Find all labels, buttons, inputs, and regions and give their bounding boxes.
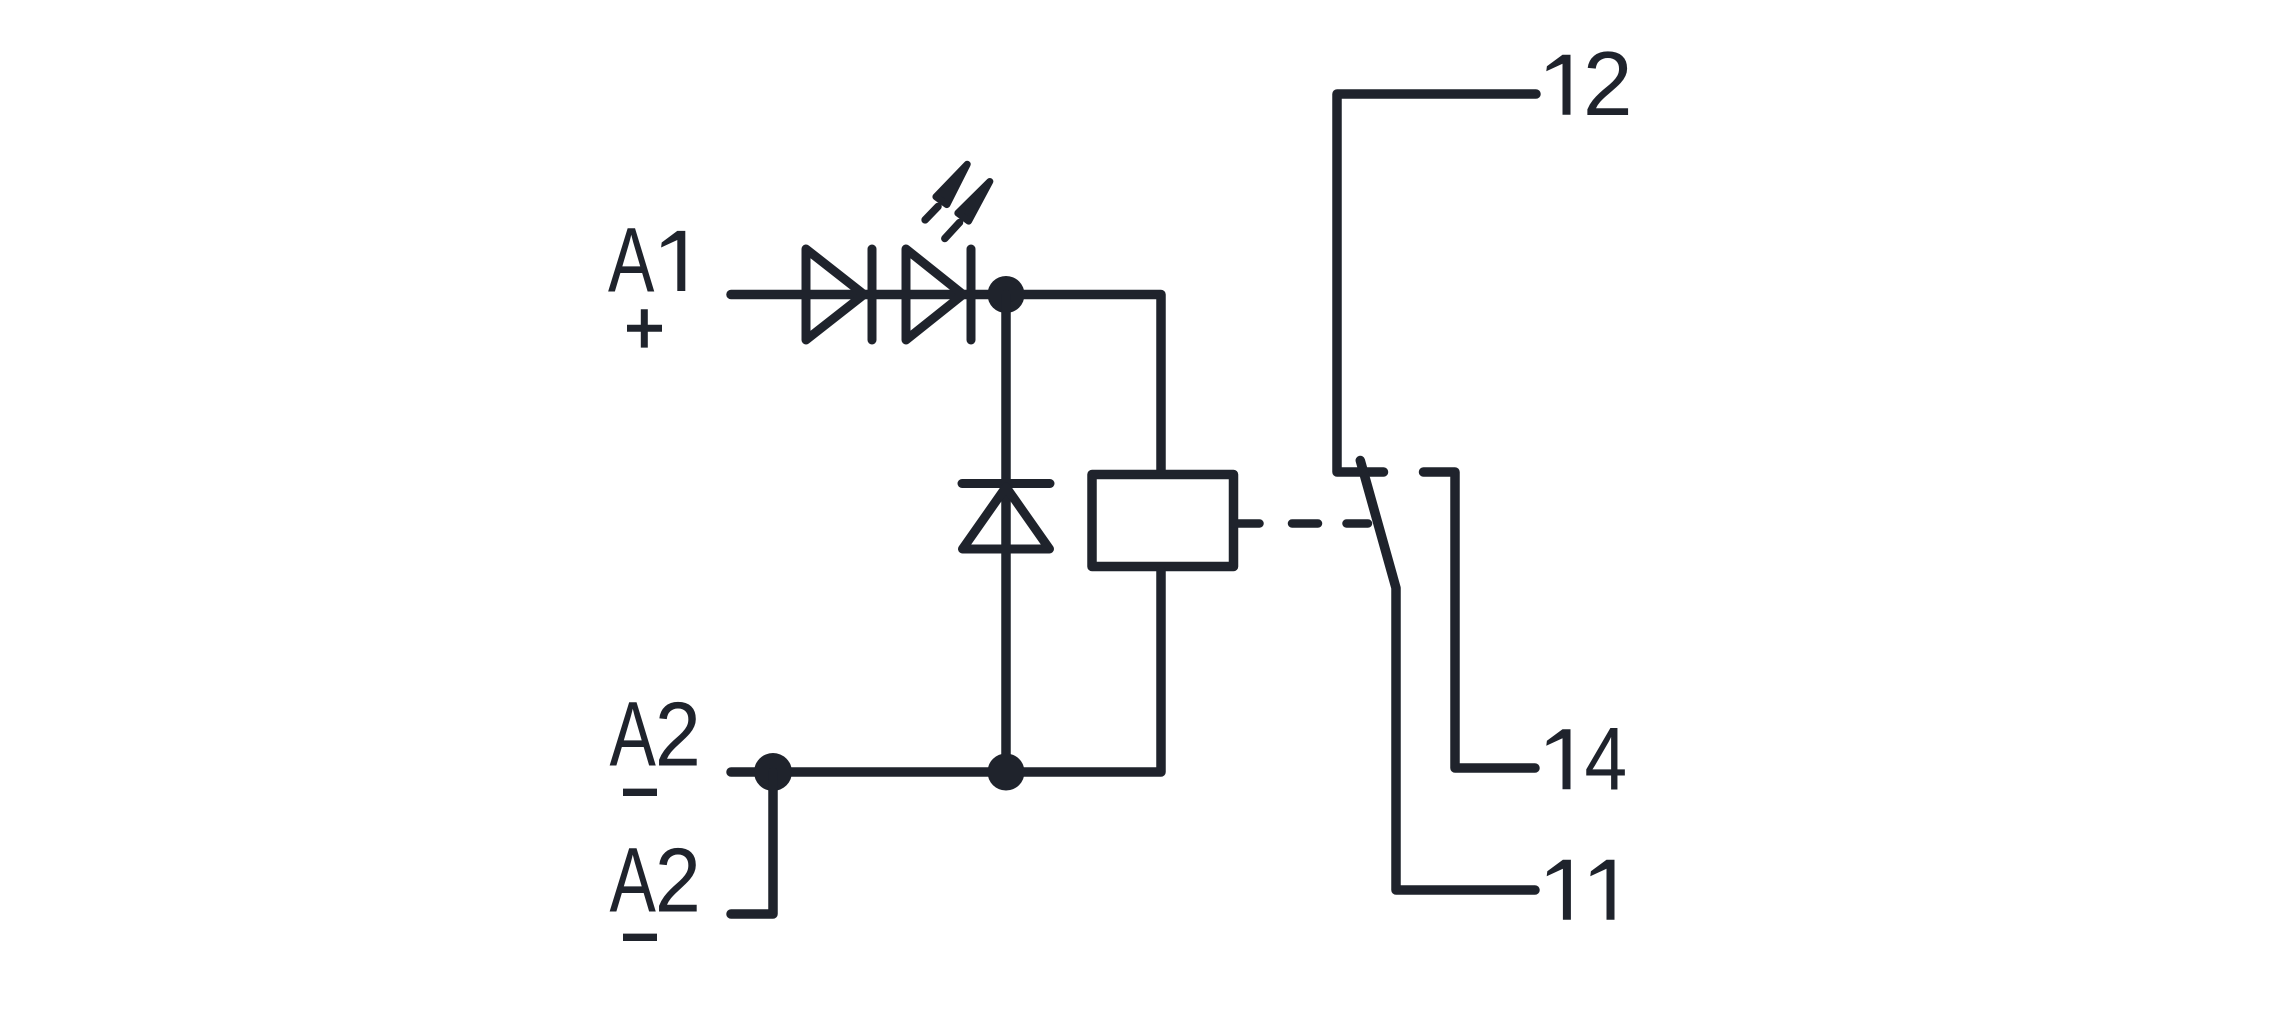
terminal label A2 lower — [610, 830, 701, 932]
terminal label A2 upper — [610, 684, 701, 786]
wire A1 lead to coil top — [731, 295, 1161, 471]
node junction J3 — [988, 754, 1025, 791]
svg-text:A: A — [608, 210, 655, 312]
svg-text:2: 2 — [655, 831, 701, 932]
terminal label A1 — [608, 210, 685, 312]
freewheel diode D3 cathode bar — [962, 479, 1050, 488]
node junction J2 — [754, 753, 792, 791]
diode D1 cathode bar — [868, 249, 877, 340]
actuator dashed link — [1292, 519, 1368, 528]
minus polarity mark upper — [623, 789, 657, 796]
switch armature — [1360, 461, 1535, 891]
svg-text:2: 2 — [655, 685, 701, 786]
svg-text:2: 2 — [1583, 34, 1633, 135]
coil actuator stub — [1234, 519, 1260, 528]
LED arrow 2 — [945, 182, 990, 239]
relay coil K1 — [1092, 475, 1234, 567]
plus polarity mark — [627, 309, 662, 347]
terminal label 12 — [1546, 34, 1632, 135]
LED D2 cathode bar — [967, 249, 976, 340]
wire contact 12 branch — [1337, 94, 1536, 472]
wire junction J1 down to A2 rail — [1001, 295, 1011, 773]
LED D2 triangle — [906, 249, 963, 340]
wire contact 14 branch — [1424, 472, 1536, 768]
terminal label 14 — [1546, 708, 1627, 808]
wire coil bottom to A2 rail — [731, 571, 1161, 772]
minus polarity mark lower — [623, 934, 657, 941]
wire A2 lower stub — [731, 772, 773, 914]
node junction J1 — [988, 276, 1025, 313]
svg-text:A: A — [610, 830, 657, 932]
terminal label 11 — [1547, 860, 1615, 920]
freewheel diode D3 triangle — [963, 487, 1050, 549]
svg-text:4: 4 — [1585, 708, 1628, 808]
LED arrow 1 — [925, 164, 967, 220]
svg-text:A: A — [610, 684, 657, 786]
diode D1 triangle — [806, 249, 864, 340]
